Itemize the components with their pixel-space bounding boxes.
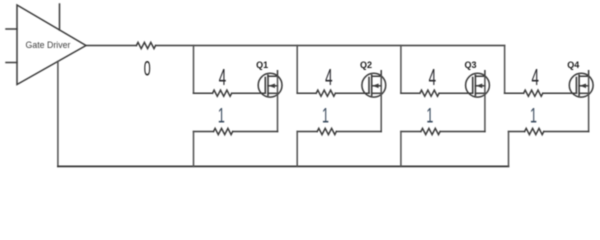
transistor Q4 drain stub (pin ends above circle) [579, 71, 589, 76]
resistor Rg1 value 4 (gate resistor) [213, 90, 232, 96]
svg-text:Gate Driver: Gate Driver [26, 40, 71, 50]
op-amp U1 gate driver triangle [17, 5, 86, 85]
value label 4 for gate resistor branch 2 [325, 64, 332, 90]
resistor Rs4 value 1 (source resistor) [525, 128, 544, 134]
node rail tap branch 2 : wire down to return rail [296, 132, 298, 167]
transistor Q4 body arrow pointing to channel [579, 84, 589, 89]
transistor Q1 body arrow pointing to channel [268, 84, 278, 89]
svg-text:4: 4 [531, 64, 538, 90]
transistor Q3 source stub [475, 92, 485, 94]
transistor Q4 gate bar [575, 78, 577, 94]
wire gate resistor lead-in branch 3 [401, 92, 420, 94]
node bus tap branch 1 : wire from bus down to gate resistor level [193, 46, 195, 94]
wire gate resistor lead-in branch 1 [194, 92, 213, 94]
transistor Q3 MOSFET symbol circle [466, 73, 490, 97]
wire bottom return rail [58, 165, 509, 167]
value label 1 for source resistor branch 4 [530, 103, 537, 127]
svg-text:4: 4 [325, 64, 332, 90]
svg-text:1: 1 [322, 103, 329, 127]
wire gate resistor lead-in branch 2 [297, 92, 316, 94]
transistor Q4 source stub [579, 92, 589, 94]
label Gate Driver [26, 40, 71, 50]
transistor Q1 drain stub (pin ends above circle) [268, 71, 278, 76]
svg-text:Q2: Q2 [360, 60, 372, 70]
svg-text:0: 0 [144, 56, 151, 80]
value label 1 for source resistor branch 3 [426, 103, 433, 127]
wire source of Q2 down to source resistor level [380, 76, 382, 131]
transistor Q1 source stub [268, 92, 278, 94]
value label 1 for source resistor branch 1 [218, 103, 225, 127]
svg-text:Q1: Q1 [256, 60, 268, 70]
transistor Q4 channel bar [578, 75, 580, 95]
resistor Rg2 value 4 (gate resistor) [316, 90, 335, 96]
value label 4 for gate resistor branch 4 [531, 64, 538, 90]
resistor Rs3 value 1 (source resistor) [421, 128, 440, 134]
wire source of Q3 down to source resistor level [484, 76, 486, 131]
reference designator label Q3 [464, 60, 476, 70]
wire source of Q1 down to source resistor level [277, 76, 279, 131]
svg-text:Q4: Q4 [567, 60, 579, 70]
svg-text:1: 1 [218, 103, 225, 127]
wire gate resistor to gate of Q4 [543, 92, 577, 94]
transistor Q4 MOSFET symbol circle [569, 73, 593, 97]
node bus tap branch 2 : wire from bus down to gate resistor level [296, 46, 298, 94]
node rail tap branch 3 : wire down to return rail [400, 132, 402, 167]
transistor Q3 channel bar [474, 75, 476, 95]
reference designator label Q1 [256, 60, 268, 70]
wire gate resistor lead-in branch 4 [505, 92, 524, 94]
wire source resistor lead branch 2 [297, 131, 317, 133]
value label 1 for source resistor branch 2 [322, 103, 329, 127]
transistor Q1 MOSFET symbol circle [258, 73, 282, 97]
transistor Q2 gate bar [368, 78, 370, 94]
wire gate resistor to gate of Q3 [439, 92, 473, 94]
node rail tap branch 4 : wire down to return rail [508, 132, 510, 167]
transistor Q3 gate bar [472, 78, 474, 94]
wire gate drive bus from R0 to branch 4 corner [156, 45, 505, 47]
wire gate resistor to gate of Q1 [232, 92, 266, 94]
resistor Rg3 value 4 (gate resistor) [420, 90, 439, 96]
svg-text:Q3: Q3 [464, 60, 476, 70]
value label 4 for gate resistor branch 3 [429, 64, 436, 90]
node bus tap branch 4 : wire from bus down to gate resistor level [504, 46, 506, 94]
transistor Q2 source stub [372, 92, 382, 94]
wire source of Q4 down to source resistor level [588, 76, 590, 131]
transistor Q2 drain stub (pin ends above circle) [372, 71, 382, 76]
wire gate resistor to gate of Q2 [335, 92, 369, 94]
svg-text:4: 4 [219, 64, 226, 90]
reference designator label Q2 [360, 60, 372, 70]
resistor R0 value 0 [136, 42, 155, 48]
transistor Q3 drain stub (pin ends above circle) [475, 71, 485, 76]
reference designator label Q4 [567, 60, 579, 70]
transistor Q1 gate bar [264, 78, 266, 94]
transistor Q1 channel bar [267, 75, 269, 95]
resistor Rs2 value 1 (source resistor) [317, 128, 336, 134]
wire input pin stub 2 [6, 62, 17, 64]
wire source resistor to source vertical branch 2 [336, 131, 381, 133]
svg-text:1: 1 [426, 103, 433, 127]
wire top supply pin of gate driver [59, 4, 61, 30]
node rail tap branch 1 : wire down to return rail [193, 132, 195, 167]
value label 4 for gate resistor branch 1 [219, 64, 226, 90]
wire source resistor lead branch 4 [509, 131, 525, 133]
wire source resistor to source vertical branch 3 [440, 131, 485, 133]
wire source resistor to source vertical branch 1 [233, 131, 278, 133]
value label 0 for resistor R0 [144, 56, 151, 80]
svg-text:1: 1 [530, 103, 537, 127]
transistor Q2 MOSFET symbol circle [362, 73, 386, 97]
node bus tap branch 3 : wire from bus down to gate resistor level [400, 46, 402, 94]
resistor Rs1 value 1 (source resistor) [214, 128, 233, 134]
transistor Q3 body arrow pointing to channel [475, 84, 485, 89]
wire source resistor lead branch 3 [401, 131, 421, 133]
svg-text:4: 4 [429, 64, 436, 90]
wire source resistor lead branch 1 [194, 131, 214, 133]
transistor Q2 channel bar [371, 75, 373, 95]
wire source resistor to source vertical branch 4 [544, 131, 589, 133]
transistor Q2 body arrow pointing to channel [372, 84, 382, 89]
resistor Rg4 value 4 (gate resistor) [524, 90, 543, 96]
wire driver output to resistor R0 [86, 45, 136, 47]
wire bottom return pin of gate driver down to rail [57, 61, 59, 166]
wire input pin stub 1 [6, 28, 17, 30]
